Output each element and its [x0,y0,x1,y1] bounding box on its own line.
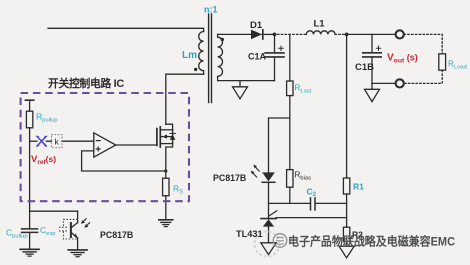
svg-text:开关控制电路 IC: 开关控制电路 IC [48,76,124,90]
svg-text:PC817B: PC817B [213,173,246,183]
svg-text:PC817B: PC817B [100,230,133,240]
svg-text:Lm: Lm [182,50,197,61]
svg-text:k: k [54,136,59,146]
svg-text:电子产品物联战略及电磁兼容EMC: 电子产品物联战略及电磁兼容EMC [288,234,455,249]
svg-text:L1: L1 [314,18,326,29]
svg-text:C1A: C1A [248,52,267,62]
svg-text:D1: D1 [250,20,263,31]
svg-text:TL431: TL431 [236,229,263,239]
svg-text:n:1: n:1 [204,5,218,15]
svg-text:C1B: C1B [355,62,374,73]
svg-text:R1: R1 [353,182,364,192]
